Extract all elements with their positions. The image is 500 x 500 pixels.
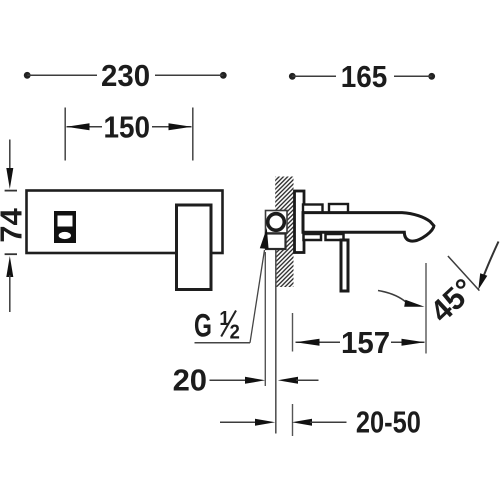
svg-text:20: 20 xyxy=(173,363,207,398)
svg-text:45°: 45° xyxy=(423,272,481,330)
svg-text:20-50: 20-50 xyxy=(356,405,421,440)
svg-text:74: 74 xyxy=(0,208,28,243)
svg-text:150: 150 xyxy=(104,110,151,145)
svg-text:165: 165 xyxy=(341,60,388,95)
svg-text:G: G xyxy=(194,308,212,344)
svg-text:2: 2 xyxy=(230,322,240,344)
svg-text:1: 1 xyxy=(219,308,230,330)
svg-text:157: 157 xyxy=(341,326,390,360)
svg-text:230: 230 xyxy=(101,60,150,94)
